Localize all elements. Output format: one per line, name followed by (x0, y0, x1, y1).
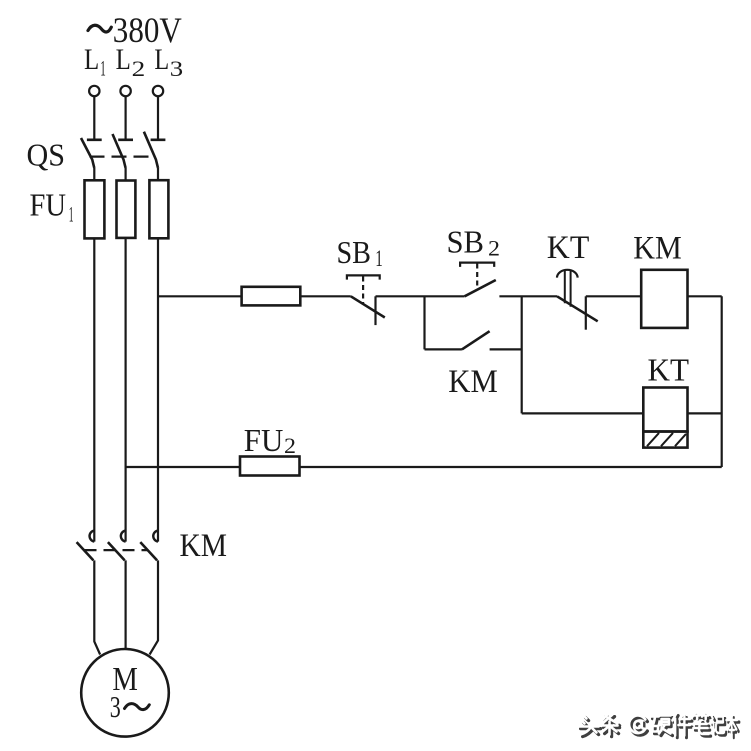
svg-text:FU: FU (30, 187, 67, 223)
svg-text:SB: SB (447, 224, 485, 260)
svg-text:L: L (154, 43, 169, 76)
svg-text:3: 3 (170, 56, 183, 81)
svg-text:L: L (84, 43, 99, 76)
svg-text:KM: KM (448, 364, 498, 400)
svg-text:KT: KT (547, 230, 590, 266)
svg-text:KM: KM (180, 528, 228, 564)
svg-text:KM: KM (633, 230, 682, 266)
svg-text:1: 1 (100, 56, 106, 81)
svg-text:KT: KT (648, 351, 690, 387)
svg-text:SB: SB (337, 234, 372, 270)
svg-text:1: 1 (375, 246, 383, 271)
svg-text:FU: FU (244, 422, 283, 458)
svg-text:QS: QS (27, 136, 66, 172)
svg-text:2: 2 (284, 433, 296, 458)
svg-text:L: L (116, 43, 131, 76)
svg-text:2: 2 (132, 56, 146, 81)
svg-text:1: 1 (69, 202, 74, 227)
svg-text:2: 2 (488, 236, 500, 261)
svg-text:3: 3 (110, 689, 121, 724)
